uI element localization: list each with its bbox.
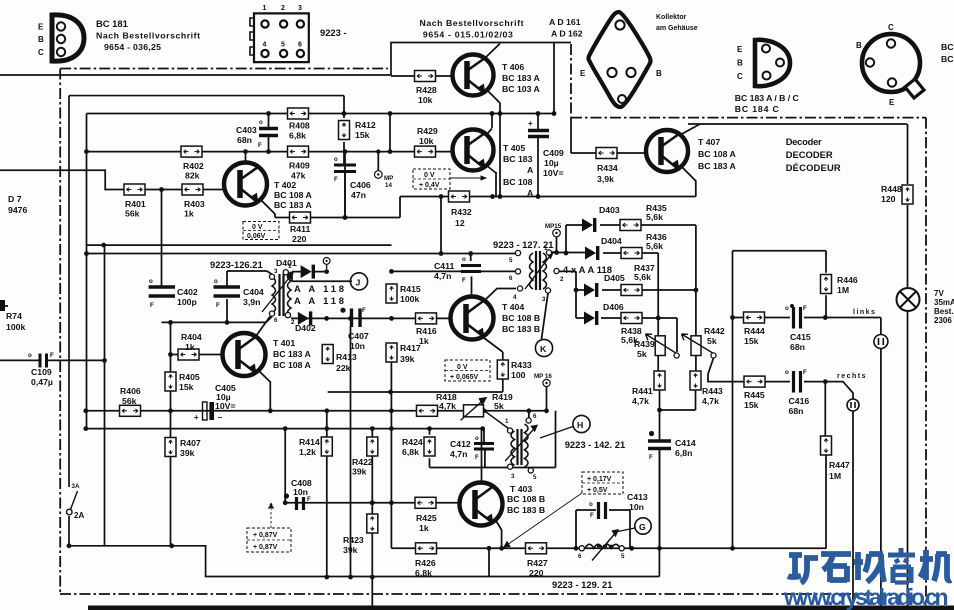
wire C413 loop bbox=[576, 510, 630, 548]
wire R405 R407 column bbox=[170, 322, 172, 545]
junction (86.5,253.5) bbox=[84, 251, 89, 256]
svg-text:R408: R408 bbox=[289, 121, 310, 131]
capacitor C412 bbox=[450, 435, 494, 461]
svg-text:3,9k: 3,9k bbox=[597, 174, 614, 184]
svg-text:47k: 47k bbox=[291, 171, 306, 181]
wire T404 emitter R433 bbox=[480, 335, 503, 392]
svg-text:BC 108: BC 108 bbox=[503, 177, 533, 187]
svg-text:R434: R434 bbox=[597, 163, 618, 173]
svg-text:BC 183 B: BC 183 B bbox=[502, 324, 540, 334]
resistor R448 bbox=[881, 184, 913, 204]
measure box +0,87V/+0,87V bbox=[247, 503, 291, 552]
svg-text:6,8n: 6,8n bbox=[675, 448, 692, 458]
svg-text:H: H bbox=[577, 420, 583, 430]
wire bottom rail y548 bbox=[391, 362, 826, 548]
junction (170.5,354.5) bbox=[168, 352, 173, 357]
junction (489,548.3) bbox=[487, 546, 492, 551]
svg-text:5: 5 bbox=[281, 42, 285, 49]
junction (326.6,271.6) bbox=[324, 269, 329, 274]
junction (391.5,271.4) bbox=[389, 269, 394, 274]
junction (103.7,245.1) bbox=[101, 243, 106, 248]
wire R422 R423 column bbox=[371, 429, 373, 610]
resistor R429 bbox=[415, 126, 438, 157]
svg-text:6,8k: 6,8k bbox=[289, 131, 306, 141]
wire links feed column bbox=[732, 251, 734, 549]
svg-text:5: 5 bbox=[621, 553, 625, 560]
text AA118 pair bbox=[294, 283, 344, 306]
package BC183 D-shape bbox=[755, 40, 790, 86]
svg-text:D406: D406 bbox=[603, 302, 624, 312]
svg-text:B: B bbox=[656, 69, 662, 78]
wire rechts row bbox=[764, 382, 853, 399]
transistor T406 bbox=[453, 55, 494, 96]
package AD161 diamond bbox=[589, 12, 651, 107]
resistor R424 bbox=[402, 437, 435, 457]
svg-text:C412: C412 bbox=[450, 439, 471, 449]
svg-text:BC: BC bbox=[941, 54, 954, 64]
wire T407 collector top bbox=[680, 124, 907, 135]
svg-text:BC 183 A / B / C: BC 183 A / B / C bbox=[735, 93, 800, 103]
junction (651.5,433.5) bbox=[649, 431, 654, 436]
svg-text:6: 6 bbox=[298, 42, 302, 49]
wire R414 column bbox=[326, 411, 328, 577]
text lamp 7V bbox=[934, 289, 954, 325]
svg-text:o: o bbox=[259, 119, 263, 126]
svg-text:2306: 2306 bbox=[934, 316, 952, 325]
connector J bbox=[350, 273, 367, 290]
diode D406 bbox=[584, 302, 624, 325]
wire R74 stub bbox=[0, 305, 8, 307]
junction (245.5,151.6) bbox=[243, 149, 248, 154]
svg-text:9654 - 036,25: 9654 - 036,25 bbox=[104, 42, 161, 52]
text BC right edge bbox=[941, 42, 954, 64]
resistor R444 bbox=[744, 312, 765, 346]
resistor R441 bbox=[632, 371, 665, 406]
svg-text:1M: 1M bbox=[837, 285, 849, 295]
svg-text:F: F bbox=[307, 496, 311, 503]
wire rail y113 bbox=[87, 114, 555, 430]
junction dots group bbox=[67, 111, 828, 579]
wire tank C404 bbox=[162, 271, 273, 322]
wire D403 row bbox=[566, 225, 696, 254]
junction (566,253) bbox=[564, 251, 569, 256]
svg-text:rechts: rechts bbox=[837, 373, 867, 380]
junction (658.2,318) bbox=[656, 316, 661, 321]
diode D402 bbox=[295, 311, 316, 333]
svg-text:C403: C403 bbox=[236, 125, 257, 135]
wire R446 stems bbox=[825, 251, 827, 318]
svg-text:T 407: T 407 bbox=[698, 137, 720, 147]
svg-text:3: 3 bbox=[542, 296, 546, 303]
svg-text:4,7n: 4,7n bbox=[434, 271, 451, 281]
resistor R417 bbox=[386, 343, 421, 364]
svg-text:F: F bbox=[649, 454, 653, 461]
svg-text:BC 108 A: BC 108 A bbox=[273, 360, 312, 370]
svg-text:R414: R414 bbox=[299, 437, 320, 447]
resistor R74 (edge) bbox=[0, 300, 25, 332]
junction (170.5,322.4) bbox=[168, 320, 173, 325]
measure box 0V/+0,065V bbox=[445, 360, 490, 381]
svg-text:5k: 5k bbox=[707, 336, 717, 346]
svg-text:F: F bbox=[803, 305, 807, 312]
junction (546.5,410.8) bbox=[544, 408, 549, 413]
junction (285.2,428.6) bbox=[283, 426, 288, 431]
svg-text:T 406: T 406 bbox=[502, 62, 524, 72]
svg-text:R446: R446 bbox=[837, 275, 858, 285]
svg-text:4,7n: 4,7n bbox=[450, 449, 467, 459]
wire T405 T406 emitters bbox=[492, 103, 500, 197]
svg-text:R405: R405 bbox=[179, 372, 200, 382]
svg-text:T 404: T 404 bbox=[502, 302, 524, 312]
svg-text:14: 14 bbox=[385, 182, 392, 189]
svg-text:R427: R427 bbox=[527, 558, 548, 568]
resistor R423 bbox=[343, 514, 378, 555]
resistor R447 bbox=[821, 436, 850, 481]
svg-text:68n: 68n bbox=[790, 342, 805, 352]
junction (372.3,502.8) bbox=[370, 500, 375, 505]
svg-text:4,7k: 4,7k bbox=[702, 396, 719, 406]
svg-text:F: F bbox=[362, 307, 366, 314]
junction (732.5,317.5) bbox=[730, 315, 735, 320]
wire T403 collector bbox=[481, 429, 483, 483]
measure box +0,17V/+0,5V bbox=[504, 472, 623, 547]
svg-text:+: + bbox=[194, 413, 199, 422]
wire C403 stems bbox=[268, 114, 270, 152]
svg-text:220: 220 bbox=[292, 234, 307, 244]
svg-text:39k: 39k bbox=[400, 354, 415, 364]
resistor R443 bbox=[690, 371, 723, 406]
svg-text:R417: R417 bbox=[400, 343, 421, 353]
scan bottom edge bar bbox=[88, 606, 954, 610]
transistor T405 bbox=[453, 130, 494, 171]
svg-text:A D 161: A D 161 bbox=[549, 17, 581, 27]
wire T401 emitter bbox=[258, 370, 270, 411]
svg-text:C: C bbox=[737, 72, 743, 81]
svg-text:R447: R447 bbox=[829, 460, 850, 470]
svg-text:am Gehäuse: am Gehäuse bbox=[656, 25, 698, 32]
wire R428 base feed bbox=[391, 75, 453, 77]
svg-text:www.crystalradio.cn: www.crystalradio.cn bbox=[783, 584, 948, 610]
junction (492.5,196.5) bbox=[490, 194, 495, 199]
svg-text:F: F bbox=[803, 369, 807, 376]
wire term6-142 stub bbox=[528, 411, 530, 418]
capacitor C403 bbox=[236, 119, 278, 149]
svg-text:C414: C414 bbox=[675, 438, 696, 448]
svg-text:R429: R429 bbox=[417, 126, 438, 136]
resistor R418 bbox=[417, 392, 457, 416]
svg-text:DECODER: DECODER bbox=[786, 149, 833, 160]
svg-text:R404: R404 bbox=[181, 332, 202, 342]
junction (391.4,502.8) bbox=[389, 500, 394, 505]
wire T403 base row bbox=[285, 429, 461, 503]
resistor R438 bbox=[621, 313, 642, 346]
resistor R432 bbox=[449, 191, 472, 228]
svg-text:0 V: 0 V bbox=[252, 224, 263, 231]
wire term3-127 diagonal to K bbox=[542, 293, 549, 339]
svg-text:F: F bbox=[150, 302, 154, 309]
svg-text:68n: 68n bbox=[237, 135, 252, 145]
junction (270.3,410.8) bbox=[268, 408, 273, 413]
svg-text:120: 120 bbox=[881, 194, 896, 204]
resistor R446 bbox=[821, 275, 858, 296]
wire x390 link bbox=[389, 114, 391, 152]
wire rail y428 bbox=[86, 428, 483, 430]
wire lamp column bbox=[907, 124, 909, 610]
wire T405 emitter diag bbox=[486, 165, 496, 173]
svg-text:BC 108 A: BC 108 A bbox=[698, 149, 737, 159]
svg-text:6,8k: 6,8k bbox=[415, 568, 432, 578]
junction (792,306) bbox=[790, 304, 794, 308]
bottom coil 129 bbox=[579, 530, 624, 561]
svg-text:o: o bbox=[334, 156, 338, 163]
resistor R401 bbox=[124, 184, 146, 219]
svg-text:BC 181: BC 181 bbox=[96, 18, 128, 29]
wire R439 column bbox=[658, 253, 659, 548]
wire R442 column bbox=[695, 225, 697, 410]
wire bottom 129 tie bbox=[489, 548, 659, 576]
wire C109 row bbox=[0, 359, 105, 361]
svg-text:MP 16: MP 16 bbox=[534, 373, 552, 380]
junction (268.5,151.6) bbox=[266, 149, 271, 154]
svg-text:R409: R409 bbox=[289, 161, 310, 171]
svg-text:C413: C413 bbox=[627, 492, 648, 502]
wire MP15 stem bbox=[556, 237, 558, 253]
transistor T403 bbox=[460, 483, 503, 526]
svg-text:12: 12 bbox=[455, 218, 465, 228]
junction (372.3,428.6) bbox=[370, 426, 375, 431]
svg-text:MP: MP bbox=[384, 175, 393, 182]
svg-text:BC 183 A: BC 183 A bbox=[698, 161, 737, 171]
junction (286.5,496) bbox=[284, 493, 289, 498]
svg-text:2A: 2A bbox=[74, 511, 84, 520]
capacitor C402 bbox=[149, 278, 198, 309]
svg-text:R402: R402 bbox=[183, 161, 204, 171]
svg-text:F: F bbox=[334, 176, 338, 183]
text BC183A/B/C BC184C bbox=[735, 93, 800, 114]
svg-text:22k: 22k bbox=[336, 363, 351, 373]
resistor R425 bbox=[415, 497, 437, 533]
svg-text:1k: 1k bbox=[419, 523, 429, 533]
svg-text:F: F bbox=[590, 512, 594, 519]
svg-text:100p: 100p bbox=[177, 297, 197, 307]
junction (378.3,151.6) bbox=[376, 149, 380, 153]
svg-text:C409: C409 bbox=[543, 148, 564, 158]
junction (484,410.8) bbox=[482, 408, 487, 413]
transformer 9223-142 core bbox=[505, 418, 537, 473]
wire C414 column bbox=[659, 433, 661, 548]
wire emitter row y217 bbox=[275, 152, 400, 218]
svg-text:R415: R415 bbox=[400, 284, 421, 294]
svg-text:R407: R407 bbox=[180, 438, 201, 448]
text AD161 AD162 bbox=[549, 17, 583, 39]
svg-text:100: 100 bbox=[511, 370, 526, 380]
svg-text:15k: 15k bbox=[179, 382, 194, 392]
junction (326.6,318.4) bbox=[324, 316, 329, 321]
svg-text:A: A bbox=[527, 165, 534, 175]
svg-text:R428: R428 bbox=[416, 85, 437, 95]
junction (344,113.5) bbox=[342, 111, 347, 116]
junction (556.5,252.5) bbox=[554, 250, 559, 255]
svg-text:C: C bbox=[38, 48, 44, 57]
diode D404 bbox=[585, 236, 622, 260]
svg-text:220: 220 bbox=[529, 568, 544, 578]
svg-text:4: 4 bbox=[263, 42, 267, 49]
svg-text:R74: R74 bbox=[6, 311, 22, 321]
junction (345,151.6) bbox=[343, 149, 348, 154]
wire links row bbox=[733, 318, 881, 335]
svg-text:100k: 100k bbox=[6, 322, 25, 332]
resistor R413 bbox=[322, 345, 357, 374]
svg-text:1k: 1k bbox=[185, 342, 195, 352]
svg-text:R426: R426 bbox=[415, 558, 436, 568]
svg-text:R433: R433 bbox=[511, 360, 532, 370]
svg-text:Kollektor: Kollektor bbox=[656, 14, 687, 21]
svg-text:C411: C411 bbox=[434, 261, 454, 271]
test point MP15 bbox=[545, 223, 562, 237]
transformer 9223-126 core bbox=[262, 270, 293, 318]
svg-text:R441: R441 bbox=[632, 386, 653, 396]
wire T405 collector bbox=[486, 129, 492, 136]
svg-text:+: + bbox=[528, 119, 533, 128]
wire D404 row bbox=[549, 252, 658, 255]
resistor R414 bbox=[299, 437, 332, 457]
wire column x104 bbox=[104, 245, 106, 546]
svg-text:A D 162: A D 162 bbox=[551, 29, 583, 39]
border solid top line bbox=[0, 43, 571, 76]
junction (372.2,502.8) bbox=[370, 500, 375, 505]
socket rechts bbox=[847, 399, 859, 411]
measure box 0V/+0,4V bbox=[413, 169, 486, 189]
svg-text:C404: C404 bbox=[243, 287, 264, 297]
junction (161.5,189.5) bbox=[159, 187, 164, 192]
resistor R435 bbox=[620, 203, 667, 231]
svg-text:R439: R439 bbox=[634, 339, 655, 349]
resistor R411 bbox=[290, 212, 311, 244]
junction (390,113.5) bbox=[388, 111, 393, 116]
transistor T407 bbox=[646, 130, 688, 172]
junction (659.5,548.3) bbox=[657, 546, 662, 551]
svg-text:5: 5 bbox=[509, 257, 513, 264]
svg-text:BC 184 C: BC 184 C bbox=[735, 104, 780, 114]
package 6-pin connector bbox=[250, 13, 309, 62]
svg-text:o: o bbox=[589, 501, 593, 508]
svg-text:MP15: MP15 bbox=[545, 223, 562, 230]
svg-text:0,47µ: 0,47µ bbox=[31, 377, 53, 387]
resistor R412 bbox=[339, 120, 376, 140]
svg-text:E: E bbox=[38, 23, 44, 32]
test point MP14 bbox=[375, 171, 394, 189]
svg-text:3: 3 bbox=[274, 268, 278, 275]
svg-text:1k: 1k bbox=[184, 209, 194, 219]
junction (501.6,548.3) bbox=[499, 546, 504, 551]
svg-text:5,6k: 5,6k bbox=[646, 212, 663, 222]
svg-text:100k: 100k bbox=[400, 294, 419, 304]
svg-text:4,7k: 4,7k bbox=[439, 401, 456, 411]
svg-text:R432: R432 bbox=[451, 207, 472, 217]
junction (659.5,410) bbox=[657, 408, 662, 413]
diode D405 bbox=[584, 273, 625, 297]
junction (576,290) bbox=[574, 288, 579, 293]
svg-text:1: 1 bbox=[544, 245, 548, 252]
svg-text:R411: R411 bbox=[290, 224, 310, 234]
svg-text:B: B bbox=[856, 41, 862, 50]
resistor R409 bbox=[288, 146, 310, 180]
diode D403 bbox=[582, 205, 620, 232]
svg-text:R443: R443 bbox=[702, 386, 723, 396]
svg-text:R406: R406 bbox=[120, 386, 141, 396]
connector H bbox=[540, 415, 590, 438]
svg-text:39k: 39k bbox=[352, 467, 367, 477]
junction (528.9,410.8) bbox=[527, 408, 532, 413]
svg-text:3: 3 bbox=[298, 5, 302, 12]
svg-text:o: o bbox=[28, 352, 32, 359]
svg-text:4: 4 bbox=[513, 294, 517, 301]
resistor R404 bbox=[178, 332, 202, 360]
svg-text:E: E bbox=[889, 98, 895, 107]
svg-text:0 V: 0 V bbox=[457, 364, 468, 371]
junction (554,113.5) bbox=[552, 111, 557, 116]
svg-text:o: o bbox=[785, 369, 789, 376]
svg-text:−: − bbox=[218, 413, 223, 422]
capacitor C411 bbox=[434, 256, 481, 284]
junction (538,113.5) bbox=[536, 111, 541, 116]
svg-text:10k: 10k bbox=[418, 95, 433, 105]
capacitor C406 bbox=[334, 156, 371, 200]
wire C412 frame bbox=[430, 411, 556, 468]
resistor R434 bbox=[596, 148, 618, 185]
junction (326.8,577) bbox=[324, 575, 329, 580]
wire AF tap column x350 bbox=[350, 327, 352, 578]
wire T406 emitter diag bbox=[487, 90, 500, 103]
wire detector out row bbox=[291, 317, 450, 319]
svg-text:Nach Bestellvorschrift: Nach Bestellvorschrift bbox=[420, 18, 524, 28]
svg-text:B: B bbox=[38, 35, 44, 44]
svg-text:BC 183 A: BC 183 A bbox=[273, 349, 312, 359]
resistor R426 bbox=[415, 543, 437, 578]
svg-text:6,8k: 6,8k bbox=[402, 447, 419, 457]
wire R434 feed bbox=[571, 118, 647, 153]
svg-text:F: F bbox=[475, 454, 479, 461]
junction (492,113.5) bbox=[490, 111, 495, 116]
svg-text:R423: R423 bbox=[343, 535, 364, 545]
svg-text:+ 0,4V: + 0,4V bbox=[419, 182, 440, 189]
svg-text:R444: R444 bbox=[744, 326, 765, 336]
svg-text:R401: R401 bbox=[125, 199, 146, 209]
wire rail y196 bbox=[400, 196, 696, 198]
resistor R415 bbox=[386, 284, 421, 304]
capacitor C414 bbox=[648, 438, 696, 461]
junction (732.5,548.3) bbox=[730, 546, 735, 551]
svg-text:G: G bbox=[639, 522, 646, 532]
watermark hanzi drawn bbox=[788, 548, 951, 583]
junction (285.2,502.8) bbox=[283, 500, 288, 505]
transistor T401 bbox=[223, 333, 266, 376]
svg-text:F: F bbox=[462, 277, 466, 284]
svg-text:C416: C416 bbox=[789, 396, 810, 406]
svg-text:DÉCODEUR: DÉCODEUR bbox=[786, 162, 841, 173]
svg-text:9654 - 015.01/02/03: 9654 - 015.01/02/03 bbox=[423, 30, 513, 40]
wire T407 emitter bbox=[682, 167, 696, 197]
junction (170.5,410.8) bbox=[168, 408, 173, 413]
wire R447 column bbox=[824, 382, 827, 549]
svg-text:9223-126.21: 9223-126.21 bbox=[210, 259, 263, 270]
transistor T404 bbox=[451, 297, 494, 340]
svg-text:47n: 47n bbox=[351, 190, 366, 200]
svg-text:10k: 10k bbox=[419, 136, 434, 146]
wire term1-142 diagonal bbox=[484, 411, 508, 429]
resistor R422 bbox=[352, 437, 378, 477]
resistor R405 bbox=[165, 372, 200, 392]
